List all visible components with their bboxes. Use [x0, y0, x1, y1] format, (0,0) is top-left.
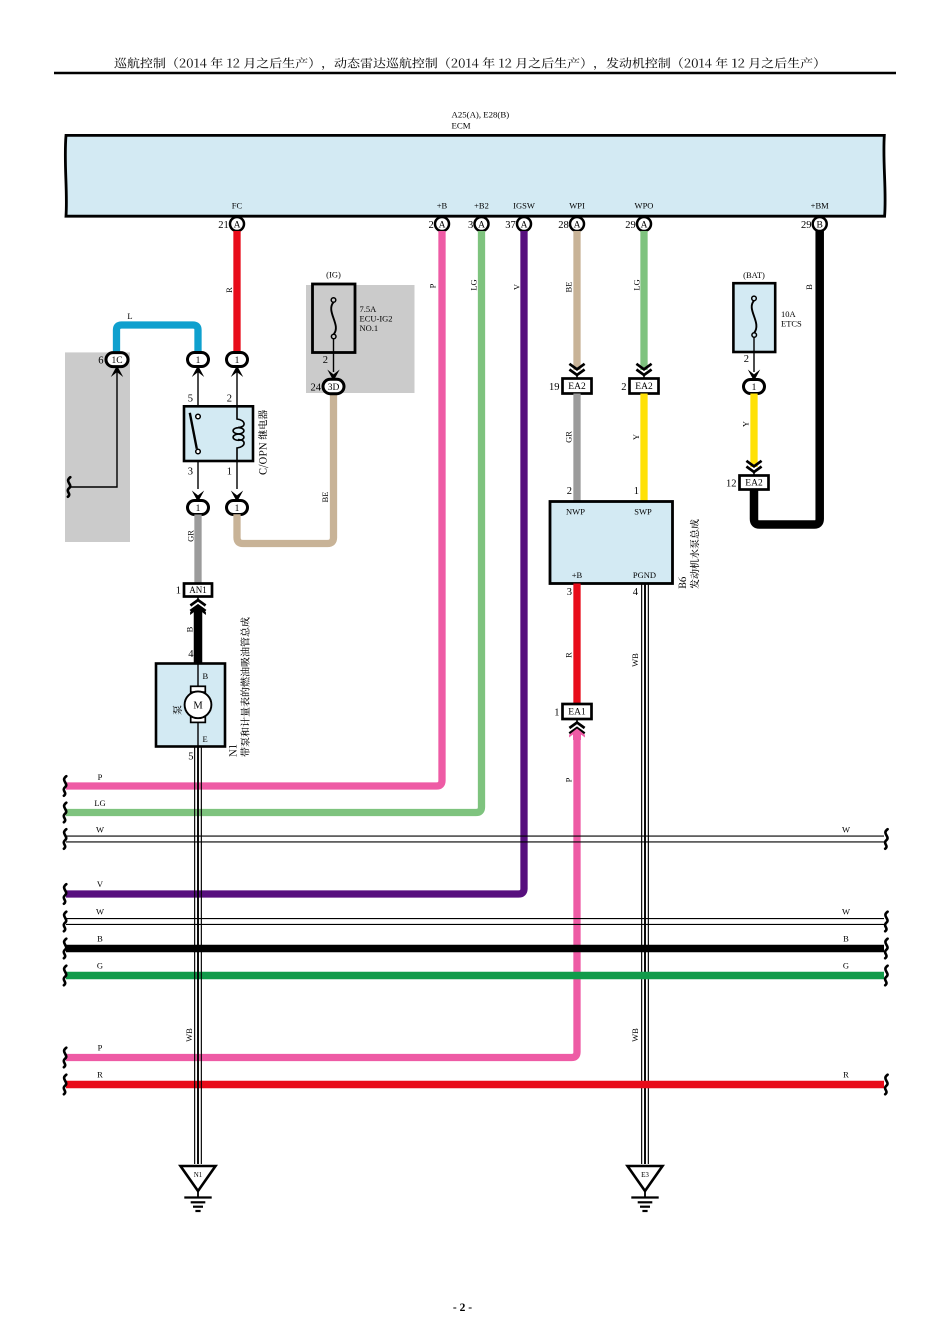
svg-text:2: 2 [323, 355, 328, 366]
svg-text:B: B [843, 934, 849, 944]
svg-text:LG: LG [94, 798, 105, 808]
svg-text:E: E [203, 734, 208, 744]
svg-text:6: 6 [98, 355, 103, 366]
svg-text:V: V [97, 879, 104, 889]
svg-text:R: R [843, 1070, 849, 1080]
svg-text:1: 1 [235, 356, 240, 366]
svg-text:2: 2 [621, 382, 626, 393]
connector EA1 [563, 704, 592, 719]
arrow into connector [231, 366, 243, 378]
wire B from ECM +BM (thick battery wire) [754, 231, 820, 525]
fuse element [752, 301, 757, 333]
wire break symbol [64, 829, 67, 849]
arrows into AN1 [197, 597, 199, 601]
wire BE from ECM WPI [573, 231, 580, 370]
motor brush bottom [191, 717, 206, 723]
svg-text:W: W [96, 907, 104, 917]
svg-text:P: P [98, 1043, 103, 1053]
ECM pin connector circle B (+BM) [813, 217, 827, 231]
svg-text:WB: WB [630, 653, 640, 667]
wire break symbol [885, 939, 888, 959]
svg-text:29: 29 [801, 220, 812, 231]
relay label C/OPN 继电器 [258, 410, 268, 475]
connector oval 1 [188, 353, 209, 367]
svg-text:B: B [97, 934, 103, 944]
svg-text:R: R [224, 287, 234, 293]
svg-text:A25(A), E28(B): A25(A), E28(B) [452, 110, 510, 120]
svg-text:P: P [564, 777, 574, 782]
svg-text:4: 4 [633, 587, 639, 598]
svg-text:1: 1 [235, 504, 240, 514]
arrow into connector [192, 491, 204, 503]
svg-text:19: 19 [549, 382, 560, 393]
svg-text:+B: +B [437, 201, 448, 211]
relay switch contact bottom [196, 449, 201, 454]
wire relay pin2 to connector [236, 372, 238, 406]
svg-text:7.5A: 7.5A [360, 304, 378, 314]
connector oval 1 [188, 501, 209, 515]
svg-text:V: V [512, 283, 522, 290]
svg-text:+B2: +B2 [474, 201, 489, 211]
arrow into 3D [327, 370, 339, 382]
svg-text:10A: 10A [781, 309, 797, 319]
svg-text:B: B [817, 220, 823, 230]
svg-text:EA2: EA2 [568, 382, 586, 392]
connector AN1 [184, 584, 212, 597]
svg-text:B: B [804, 284, 814, 290]
wire P from ECM +B (down to horizontal run) [66, 231, 442, 786]
wire fuse to connector [753, 337, 755, 372]
connector 3D [323, 379, 344, 393]
wire break symbol [885, 1075, 888, 1095]
wire LG from ECM WPO [640, 231, 647, 370]
svg-text:W: W [96, 825, 104, 835]
svg-text:1: 1 [752, 383, 757, 393]
relay C/OPN box [184, 406, 253, 461]
svg-text:NWP: NWP [566, 507, 585, 517]
svg-text:SWP: SWP [634, 507, 652, 517]
arrow into connector [748, 370, 760, 382]
ground E3 [628, 1166, 663, 1191]
svg-text:G: G [843, 961, 849, 971]
wire break symbol [64, 884, 67, 904]
svg-text:1C: 1C [111, 356, 122, 366]
svg-text:24: 24 [311, 383, 322, 394]
wire break symbol [64, 912, 67, 932]
svg-text:1: 1 [176, 586, 181, 597]
svg-text:29: 29 [625, 220, 636, 231]
svg-text:BE: BE [564, 282, 574, 293]
hidden-circuit gray box (fuse IG) [306, 285, 415, 393]
connector oval 1 [227, 501, 248, 515]
wire LG from ECM +B2 [66, 231, 482, 813]
horizontal wire W (lower) [66, 918, 884, 920]
wire WB (fuel pump to ground) [194, 747, 196, 1165]
fuel pump box [156, 664, 225, 747]
header title text [114, 57, 817, 70]
svg-text:GR: GR [564, 431, 574, 443]
ECM box [65, 135, 885, 216]
pump internal wire bottom [197, 722, 199, 746]
svg-text:3: 3 [567, 587, 572, 598]
svg-text:ETCS: ETCS [781, 319, 802, 329]
svg-text:3: 3 [188, 467, 193, 478]
svg-text:3: 3 [468, 220, 473, 231]
wire relay pin1 down [236, 461, 238, 489]
wire Y (fuse to EA2) [750, 394, 757, 468]
svg-text:PGND: PGND [633, 570, 656, 580]
wire B (pump to AN1) with arrow tip [194, 611, 203, 664]
wire break symbol [64, 966, 67, 986]
svg-text:L: L [127, 311, 132, 321]
svg-text:5: 5 [188, 752, 193, 763]
svg-text:GR: GR [186, 530, 196, 542]
arrows into EA2 [746, 461, 761, 467]
component label N1 带泵和计量表的燃油吸油管总成 [229, 617, 250, 756]
fuse element [331, 302, 336, 334]
svg-text:2: 2 [567, 486, 572, 497]
svg-text:28: 28 [558, 220, 569, 231]
arrow into connector [231, 491, 243, 503]
connector EA2 (2) [630, 379, 659, 394]
svg-text:(BAT): (BAT) [743, 270, 765, 280]
wire break symbol [64, 776, 67, 796]
svg-text:W: W [842, 907, 850, 917]
svg-text:1: 1 [227, 467, 232, 478]
ECM pin connector circle A (FC) [230, 217, 244, 231]
svg-text:WB: WB [184, 1028, 194, 1042]
wire BE (3D to relay) [237, 394, 334, 544]
arrow into 1C [111, 366, 123, 378]
header underline rule [54, 72, 896, 75]
svg-text:+B: +B [572, 570, 583, 580]
svg-text:A: A [234, 220, 241, 230]
horizontal wire R [66, 1081, 884, 1089]
svg-text:2: 2 [227, 394, 232, 405]
horizontal wire B [66, 945, 884, 953]
svg-text:G: G [97, 961, 103, 971]
wire break symbol [64, 1075, 67, 1095]
svg-text:A: A [439, 220, 446, 230]
motor M circle [185, 691, 212, 718]
svg-text:B: B [203, 671, 209, 681]
svg-text:1: 1 [554, 708, 559, 719]
svg-text:21: 21 [218, 220, 229, 231]
wire R (+B of water pump to EA1) [573, 584, 580, 705]
wire P (to EA1) with arrow tip [66, 733, 577, 1058]
arrows into EA2 [636, 364, 651, 370]
arrows into EA1 [576, 719, 578, 723]
svg-text:ECM: ECM [452, 121, 471, 131]
wire GR (relay to AN1) [194, 515, 201, 584]
svg-text:E3: E3 [641, 1171, 649, 1179]
hidden-circuit gray box (left) [65, 352, 130, 542]
svg-text:LG: LG [469, 279, 479, 290]
connector oval 1 [744, 380, 765, 394]
svg-text:P: P [428, 283, 438, 288]
engine water pump box B6 [550, 502, 673, 584]
ground N1 [181, 1166, 216, 1191]
svg-text:FC: FC [232, 201, 243, 211]
svg-text:37: 37 [505, 220, 516, 231]
ECM pin connector circle A (+B2) [475, 217, 489, 231]
svg-text:3D: 3D [328, 383, 340, 393]
ECM pin connector circle A (+B) [435, 217, 449, 231]
svg-text:A: A [641, 220, 648, 230]
wire fuse to 3D [333, 339, 335, 372]
svg-text:EA2: EA2 [745, 479, 763, 489]
wire relay pin3 down [197, 461, 199, 489]
ECM pin connector circle A (WPI) [570, 217, 584, 231]
svg-text:A: A [521, 220, 528, 230]
svg-text:A: A [478, 220, 485, 230]
svg-text:Y: Y [631, 434, 641, 440]
fuse 10A ETCS box [733, 283, 775, 352]
wire break symbol [64, 803, 67, 823]
arrows into EA2 [569, 364, 584, 370]
svg-text:2: 2 [429, 220, 434, 231]
motor brush top [191, 686, 206, 692]
wire break symbol [885, 912, 888, 932]
connector 1C [106, 353, 128, 367]
arrow into connector [192, 366, 204, 378]
svg-text:ECU-IG2: ECU-IG2 [360, 314, 393, 324]
svg-text:1: 1 [196, 504, 201, 514]
connector EA2 (19) [563, 379, 592, 394]
wire break symbol [885, 829, 888, 849]
connector EA2 (12) [740, 476, 769, 490]
relay switch contact top [196, 414, 201, 419]
horizontal wire W (upper) [66, 835, 884, 837]
wire break symbol [885, 966, 888, 986]
relay switch blade [190, 413, 197, 449]
svg-text:LG: LG [632, 279, 642, 290]
svg-text:AN1: AN1 [189, 585, 207, 595]
pump internal wire top [197, 664, 199, 688]
svg-text:A: A [574, 220, 581, 230]
svg-text:R: R [97, 1070, 103, 1080]
svg-text:IGSW: IGSW [513, 201, 535, 211]
component label B6 发动机水泵总成 [679, 519, 700, 588]
svg-text:WB: WB [630, 1028, 640, 1042]
svg-text:EA1: EA1 [568, 708, 586, 718]
svg-text:+BM: +BM [811, 201, 829, 211]
svg-text:1: 1 [634, 486, 639, 497]
svg-text:Y: Y [741, 421, 751, 427]
svg-text:M: M [193, 701, 203, 712]
svg-text:(IG): (IG) [326, 270, 341, 280]
svg-text:R: R [564, 652, 574, 658]
ECM pin connector circle A (IGSW) [517, 217, 531, 231]
svg-text:WPI: WPI [569, 201, 585, 211]
svg-text:- 2 -: - 2 - [453, 1302, 472, 1314]
svg-text:NO.1: NO.1 [360, 323, 379, 333]
horizontal wire G [66, 972, 884, 980]
wire R from ECM FC [233, 231, 240, 353]
wire L (blue) [117, 325, 199, 353]
svg-text:B: B [185, 626, 195, 632]
svg-text:EA2: EA2 [635, 382, 653, 392]
svg-text:P: P [98, 772, 103, 782]
svg-text:1: 1 [196, 356, 201, 366]
wire break symbol [68, 477, 71, 497]
fuse 7.5A ECU-IG2 NO.1 box [313, 284, 356, 353]
svg-text:WPO: WPO [635, 201, 654, 211]
pump label 泵 [173, 705, 182, 714]
ECM pin connector circle A (WPO) [637, 217, 651, 231]
wire relay pin5 to connector [197, 372, 199, 406]
svg-text:4: 4 [188, 649, 194, 660]
wire Y (EA2 to water pump SWP) [640, 394, 647, 502]
svg-text:2: 2 [744, 354, 749, 365]
wire WB (water pump PGND to ground) [641, 584, 643, 1165]
wire break symbol [64, 1048, 67, 1068]
svg-text:12: 12 [726, 479, 737, 490]
wire GR (EA2 to water pump NWP) [573, 394, 580, 502]
wire V from ECM IGSW [66, 231, 524, 894]
wire break symbol [64, 939, 67, 959]
wire to 1C inside gray box [70, 372, 117, 487]
svg-text:N1: N1 [194, 1171, 203, 1179]
svg-text:5: 5 [188, 394, 193, 405]
svg-text:W: W [842, 825, 850, 835]
svg-text:BE: BE [320, 492, 330, 503]
connector oval 1 [227, 353, 248, 367]
relay coil [237, 406, 244, 461]
